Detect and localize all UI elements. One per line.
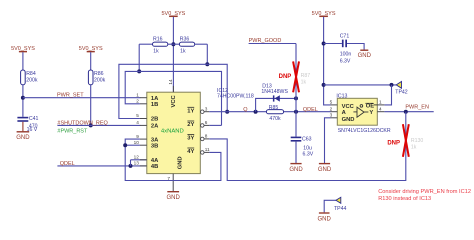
ground C41: [16, 122, 30, 141]
svg-text:3: 3: [205, 106, 208, 111]
node QDEL junction: [294, 110, 298, 114]
svg-text:R36: R36: [180, 37, 190, 43]
svg-text:3Y: 3Y: [187, 136, 194, 142]
test point TP44: [324, 197, 346, 212]
svg-text:R85: R85: [269, 105, 279, 111]
IC12 pin numbers right: [167, 79, 210, 181]
svg-text:4B: 4B: [151, 164, 158, 170]
svg-text:5: 5: [330, 100, 333, 105]
wire R84 to C41: [22, 85, 24, 117]
svg-text:13: 13: [134, 161, 140, 166]
IC12 output bubbles and stubs: [201, 110, 210, 154]
IC12 pin names: [151, 94, 183, 170]
resistor R130 DNP: [387, 124, 423, 157]
node C71 junction: [322, 42, 326, 46]
svg-text:1: 1: [379, 100, 382, 105]
svg-text:3B: 3B: [151, 143, 158, 149]
wire Q net: [209, 107, 330, 113]
svg-text:2: 2: [136, 99, 139, 104]
power 5V0_SYS left2: [79, 46, 103, 52]
svg-text:DNP: DNP: [387, 141, 400, 147]
svg-text:1k: 1k: [411, 145, 417, 151]
wire inner loop 2Y to 1B: [125, 71, 221, 125]
svg-text:2Y: 2Y: [187, 122, 194, 128]
svg-text:1A: 1A: [151, 96, 159, 102]
wire R36 right down: [206, 44, 208, 64]
svg-text:GND: GND: [342, 117, 355, 123]
test point TP42: [395, 82, 408, 96]
svg-text:1B: 1B: [151, 102, 158, 108]
node OE branch junction: [390, 83, 394, 87]
node QDEL pin13 junction: [129, 164, 133, 168]
wire pin12-13 tie: [131, 160, 147, 166]
svg-text:1k: 1k: [180, 49, 186, 55]
svg-text:200k: 200k: [26, 78, 38, 84]
node 1Y feedback junction: [225, 110, 229, 114]
node R16 inner junction: [137, 69, 141, 73]
buffer IC13 body: [336, 93, 391, 134]
IC12 output labels: [187, 107, 194, 155]
svg-text:3A: 3A: [151, 137, 159, 143]
svg-text:1k: 1k: [301, 79, 307, 85]
IC13 pin stubs: [331, 105, 385, 118]
IC13 buffer triangle: [353, 105, 377, 118]
svg-text:PWR_SET: PWR_SET: [57, 93, 84, 99]
svg-text:#PWR_RST: #PWR_RST: [57, 128, 88, 134]
svg-text:1Y: 1Y: [187, 109, 194, 115]
svg-text:Q: Q: [243, 107, 248, 113]
node pins 9 10 junction: [123, 143, 127, 147]
wire PWR_GOOD vertical through R87: [295, 44, 297, 137]
svg-text:14: 14: [168, 79, 173, 85]
svg-text:74HC00PW,118: 74HC00PW,118: [217, 93, 254, 99]
svg-text:QDEL: QDEL: [303, 107, 318, 113]
resistor R86: [88, 52, 105, 85]
wire PWR_SET: [23, 93, 140, 99]
svg-text:R87: R87: [301, 73, 311, 79]
svg-text:4A: 4A: [151, 158, 159, 164]
svg-text:PWR_GOOD: PWR_GOOD: [249, 38, 282, 44]
svg-text:R86: R86: [94, 71, 104, 77]
svg-text:100n: 100n: [340, 52, 352, 58]
wire to TP42: [324, 84, 397, 86]
svg-text:GND: GND: [358, 53, 372, 59]
IC13 pin numbers: [330, 100, 382, 118]
node D13 left junction: [254, 110, 258, 114]
ground C63: [289, 164, 303, 173]
node D13 right junction: [294, 96, 298, 100]
note text: [378, 189, 471, 202]
svg-text:GND: GND: [177, 156, 183, 169]
svg-text:6.3V: 6.3V: [340, 59, 351, 65]
svg-text:GND: GND: [16, 135, 30, 141]
wire PWR_EN: [384, 105, 433, 112]
svg-text:R84: R84: [26, 71, 36, 77]
svg-text:Y: Y: [369, 110, 373, 116]
wire pins 9 10 to 4Y loop: [125, 139, 221, 180]
svg-text:DNP: DNP: [279, 74, 292, 80]
svg-text:6.3V: 6.3V: [303, 152, 314, 158]
svg-text:2: 2: [330, 106, 333, 111]
wire 5V to IC13 VCC: [324, 17, 331, 105]
svg-text:PWR_EN: PWR_EN: [405, 105, 429, 111]
IC12 VCC stub pin14: [172, 86, 174, 92]
svg-text:Consider driving PWR_EN from I: Consider driving PWR_EN from IC12: [378, 189, 471, 195]
svg-text:SN74LVC1G126DCKR: SN74LVC1G126DCKR: [338, 128, 391, 134]
ground IC13: [318, 164, 332, 173]
svg-text:1: 1: [136, 92, 139, 97]
wire R16 left down: [138, 44, 140, 71]
node PWR_EN junction: [404, 110, 408, 114]
IC12 left pin stubs: [140, 98, 147, 166]
svg-text:VCC: VCC: [342, 104, 355, 110]
svg-text:1N4148WS: 1N4148WS: [261, 89, 288, 95]
wire OE branch: [384, 85, 391, 105]
svg-text:12: 12: [134, 155, 140, 160]
capacitor C41: [17, 116, 38, 133]
svg-text:C41: C41: [29, 116, 39, 122]
wire IC13 GND: [325, 118, 331, 163]
svg-text:1k: 1k: [153, 49, 159, 55]
node R16 R36 junction: [171, 42, 175, 46]
svg-text:QDEL: QDEL: [60, 161, 75, 167]
svg-text:VCC: VCC: [171, 94, 177, 107]
svg-text:GND: GND: [318, 216, 332, 222]
ground IC12: [167, 192, 181, 201]
svg-text:6: 6: [205, 120, 208, 125]
svg-text:10: 10: [134, 140, 140, 145]
power 5V0_SYS right: [312, 11, 336, 17]
svg-text:11: 11: [205, 147, 210, 152]
svg-text:R130: R130: [411, 138, 424, 144]
svg-text:IC13: IC13: [336, 93, 347, 99]
svg-text:TP42: TP42: [395, 89, 408, 95]
svg-text:9: 9: [136, 134, 139, 139]
svg-text:4: 4: [136, 120, 139, 125]
wire QDEL: [57, 161, 146, 167]
svg-text:TP44: TP44: [334, 206, 347, 212]
diode D13: [256, 84, 296, 112]
resistor R84: [21, 52, 38, 85]
ground TP44: [318, 213, 332, 222]
svg-text:GND: GND: [167, 195, 181, 201]
svg-text:470k: 470k: [269, 116, 281, 122]
wire R130 branch to 3Y: [209, 112, 405, 181]
capacitor C71: [324, 34, 365, 65]
IC12 GND stub pin7: [172, 174, 174, 192]
capacitor C63: [291, 137, 314, 163]
svg-text:C63: C63: [302, 137, 312, 143]
svg-text:#SHUTDOWN_REQ: #SHUTDOWN_REQ: [57, 120, 108, 126]
svg-text:3: 3: [330, 112, 333, 117]
node SHUTDOWN junction: [89, 123, 93, 127]
resistor R36: [173, 37, 207, 55]
power 5V0_SYS left1: [11, 46, 35, 52]
svg-text:R130 instead of IC13: R130 instead of IC13: [378, 196, 431, 202]
IC13 pin names: [342, 103, 375, 123]
svg-text:5: 5: [136, 113, 139, 118]
svg-text:C71: C71: [340, 34, 350, 40]
svg-text:GND: GND: [289, 167, 303, 173]
svg-text:4Y: 4Y: [187, 149, 194, 155]
svg-text:8: 8: [205, 134, 208, 139]
node PWR_SET junction: [21, 96, 25, 100]
resistor R16: [139, 37, 173, 55]
resistor R85: [266, 105, 283, 122]
resistor R87 DNP: [279, 61, 311, 92]
svg-text:2A: 2A: [151, 124, 159, 130]
wire VCC vertical: [172, 17, 174, 92]
node TP42 branch junction: [322, 83, 326, 87]
node R36 outer junction: [205, 62, 209, 66]
svg-text:200k: 200k: [94, 78, 106, 84]
power 5V0_SYS top: [161, 11, 185, 17]
wire #SHUTDOWN_REQ: [57, 120, 140, 126]
svg-text:4: 4: [379, 106, 382, 111]
svg-text:2B: 2B: [151, 117, 158, 123]
wire R86 down: [90, 85, 92, 126]
IC IC12 74HC00 quad NAND: [147, 88, 254, 174]
svg-text:R16: R16: [153, 37, 163, 43]
IC12 pin numbers left: [134, 92, 140, 165]
svg-text:OE: OE: [366, 104, 375, 110]
wire PWR_GOOD: [249, 38, 296, 44]
svg-text:GND: GND: [318, 167, 332, 173]
wire outer loop 1Y to 2B: [119, 64, 227, 118]
svg-text:4xNAND: 4xNAND: [161, 128, 184, 134]
ground C71: [358, 50, 372, 59]
